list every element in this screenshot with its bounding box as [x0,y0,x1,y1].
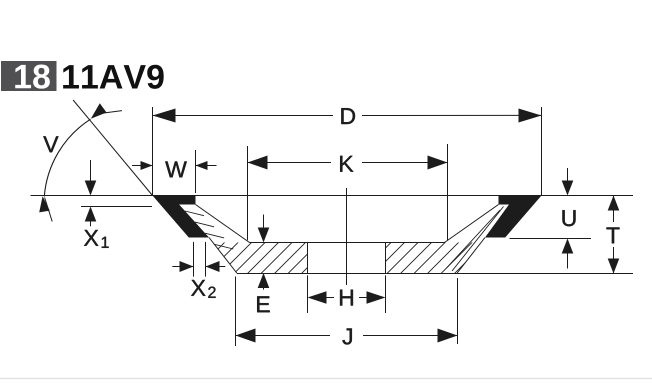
U arrow upper [562,168,574,196]
abrasive rim left (black) [153,196,210,238]
X1 lower reference line [81,206,152,208]
D label [341,108,355,124]
H label [340,290,353,306]
hatching rungs on left flare wall [185,211,233,249]
inner flare wall right [445,205,499,243]
X1 label [84,230,109,248]
inner flare wall left [196,205,250,243]
dish floor line [250,242,445,244]
X1 arrow upper [85,160,97,196]
D extension line right [541,107,543,196]
hatching right back section [340,235,520,280]
H dimension line [308,291,386,304]
E label [257,296,269,312]
H extension line right [385,275,387,313]
E arrow lower [258,273,270,290]
U arrow lower [562,239,574,269]
K label [340,156,353,172]
V flare angle extension line [73,100,152,196]
W label [165,161,187,177]
V arc arrowhead bottom [39,196,50,212]
K dimension line [248,156,448,170]
index badge 18 [1,61,57,91]
T label [606,227,619,243]
bottom separator rule [0,378,652,380]
abrasive rim right (black) [485,196,542,238]
V label [43,136,58,152]
X2 dimension arrows [172,261,225,272]
J dimension line [236,329,458,343]
E arrow upper [258,215,270,243]
D extension line left [152,107,154,196]
X1 arrow lower [85,207,97,227]
core wall right below rim [457,238,485,274]
J extension line left [235,277,237,347]
title 11AV9 [63,65,164,89]
W extension line (inner rim edge) [195,150,197,193]
H extension line left [307,275,309,313]
U depth reference line [510,238,592,240]
D dimension line [153,109,542,123]
core wall left below rim [209,238,237,274]
X2 extension lines [194,242,206,277]
J extension line right [457,278,459,344]
arbor hole wall right [385,243,387,274]
hatching lines on right flare wall [447,207,504,272]
wheel bottom line and extension [237,273,633,275]
T dimension line [608,196,620,274]
V angle arc [44,111,122,222]
V arc arrowhead top [91,103,107,119]
arbor hole wall left [307,243,309,274]
U label [562,210,575,226]
J label [342,328,351,344]
K extension line right [447,144,449,240]
X2 label [191,280,215,298]
wheel top extension line [31,195,634,197]
K extension line left [247,146,249,240]
hatching left back section [160,235,354,280]
W dimension arrows [132,161,217,170]
center line [346,188,348,285]
